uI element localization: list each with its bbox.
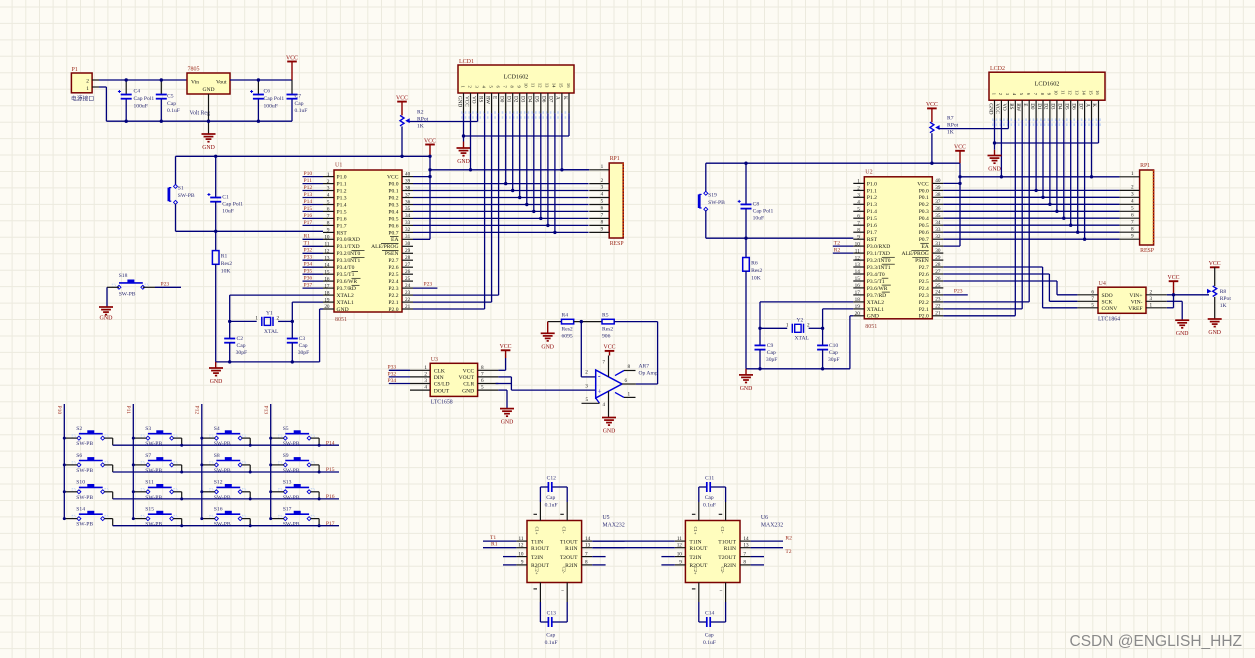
svg-text:P3.6/WR: P3.6/WR: [337, 279, 358, 285]
svg-text:SW-PB: SW-PB: [708, 200, 725, 206]
svg-text:C2+: C2+: [693, 567, 698, 575]
svg-text:LTC1864: LTC1864: [1098, 317, 1120, 323]
svg-text:39: 39: [935, 185, 941, 191]
svg-text:12: 12: [1068, 90, 1073, 95]
svg-text:5: 5: [1131, 206, 1134, 212]
svg-text:C10: C10: [829, 343, 839, 349]
svg-text:T1IN: T1IN: [531, 539, 543, 545]
svg-text:XTAL1: XTAL1: [867, 307, 884, 313]
svg-text:EA: EA: [391, 237, 398, 243]
svg-text:C2: C2: [237, 336, 244, 342]
svg-text:GND: GND: [988, 167, 1001, 173]
svg-text:9: 9: [857, 234, 860, 240]
svg-text:P3.4/T0: P3.4/T0: [867, 272, 885, 278]
svg-text:Cap: Cap: [167, 101, 176, 107]
svg-text:13: 13: [1075, 90, 1080, 95]
svg-text:7805: 7805: [188, 67, 200, 73]
svg-text:0.1uF: 0.1uF: [167, 108, 180, 114]
svg-text:P2.5: P2.5: [919, 279, 929, 285]
svg-text:P1.7: P1.7: [867, 230, 877, 236]
svg-text:11: 11: [519, 536, 524, 542]
svg-text:10: 10: [524, 83, 529, 88]
svg-text:P12: P12: [194, 406, 200, 415]
svg-text:4: 4: [1131, 199, 1134, 205]
svg-text:AR7: AR7: [639, 363, 650, 369]
svg-text:2: 2: [1131, 185, 1134, 191]
svg-text:P10: P10: [56, 406, 62, 415]
svg-text:SW-PB: SW-PB: [214, 441, 231, 447]
svg-text:3: 3: [327, 186, 330, 192]
svg-text:5: 5: [586, 397, 589, 403]
svg-text:6: 6: [625, 378, 628, 384]
svg-text:9: 9: [601, 227, 604, 233]
svg-text:3: 3: [1150, 296, 1153, 302]
svg-text:Y1: Y1: [266, 311, 273, 317]
svg-text:7: 7: [1131, 219, 1134, 225]
svg-text:17: 17: [855, 290, 861, 296]
svg-text:D7: D7: [1077, 103, 1083, 110]
svg-text:R7: R7: [947, 116, 954, 122]
svg-text:1K: 1K: [1220, 303, 1227, 309]
svg-text:4: 4: [327, 193, 330, 199]
svg-text:P0.6: P0.6: [919, 230, 929, 236]
svg-text:12: 12: [538, 83, 543, 88]
svg-text:21: 21: [405, 304, 411, 310]
svg-text:16: 16: [566, 83, 571, 88]
svg-text:P2.7: P2.7: [919, 265, 929, 271]
svg-text:P0.2: P0.2: [388, 195, 398, 201]
svg-text:DOUT: DOUT: [434, 388, 450, 394]
svg-text:1: 1: [327, 172, 330, 178]
svg-text:VO: VO: [470, 96, 476, 104]
svg-text:LCD1602: LCD1602: [1035, 81, 1060, 88]
svg-text:C14: C14: [705, 611, 715, 617]
svg-text:5: 5: [1091, 302, 1094, 308]
svg-text:10uF: 10uF: [222, 209, 234, 215]
svg-text:4: 4: [424, 385, 427, 391]
svg-text:GND: GND: [740, 386, 753, 392]
svg-text:SW-PB: SW-PB: [214, 522, 231, 528]
svg-text:~: ~: [561, 589, 564, 594]
svg-text:C5: C5: [167, 94, 174, 100]
svg-text:RESP: RESP: [610, 241, 624, 247]
svg-text:XTAL2: XTAL2: [337, 293, 354, 299]
svg-text:P3.0/RXD: P3.0/RXD: [337, 237, 360, 243]
svg-text:P15: P15: [326, 467, 335, 473]
svg-text:3: 3: [1131, 192, 1134, 198]
svg-text:GND: GND: [867, 314, 879, 320]
svg-text:XTAL1: XTAL1: [337, 300, 354, 306]
svg-text:28: 28: [405, 255, 411, 261]
svg-text:10K: 10K: [221, 269, 231, 275]
svg-text:8: 8: [601, 220, 604, 226]
svg-text:T2: T2: [785, 549, 791, 555]
svg-text:P1.0: P1.0: [337, 175, 347, 181]
svg-text:7: 7: [327, 214, 330, 220]
svg-text:P1.2: P1.2: [867, 195, 877, 201]
svg-text:Op Amp: Op Amp: [639, 371, 658, 377]
svg-text:P1.1: P1.1: [337, 182, 347, 188]
svg-text:12: 12: [518, 542, 524, 548]
svg-text:P3.7/RD: P3.7/RD: [337, 286, 356, 292]
svg-text:30pF: 30pF: [298, 350, 310, 356]
svg-text:P34: P34: [388, 378, 397, 384]
svg-text:VCC: VCC: [387, 175, 399, 181]
svg-text:P12: P12: [304, 185, 313, 191]
svg-text:XTAL: XTAL: [264, 329, 279, 335]
svg-text:23: 23: [405, 290, 411, 296]
svg-text:24: 24: [405, 283, 411, 289]
svg-text:P11: P11: [125, 406, 131, 415]
svg-text:P0.7: P0.7: [388, 230, 398, 236]
svg-text:SDO: SDO: [1102, 293, 1113, 299]
svg-text:26: 26: [935, 276, 941, 282]
svg-text:SW-PB: SW-PB: [145, 441, 162, 447]
svg-text:VCC: VCC: [500, 344, 512, 350]
svg-text:RPot: RPot: [1220, 296, 1232, 302]
svg-text:P2.2: P2.2: [919, 300, 929, 306]
svg-text:1: 1: [857, 179, 860, 185]
svg-text:30pF: 30pF: [236, 350, 248, 356]
svg-text:40: 40: [935, 178, 941, 184]
svg-text:R4: R4: [562, 312, 569, 318]
svg-text:R2: R2: [417, 110, 424, 116]
svg-text:4: 4: [601, 192, 604, 198]
svg-text:D3: D3: [1050, 103, 1056, 110]
svg-text:P32: P32: [304, 248, 313, 254]
svg-text:P0.1: P0.1: [388, 188, 398, 194]
svg-text:14: 14: [743, 536, 749, 542]
svg-text:P16: P16: [304, 213, 313, 219]
svg-text:P36: P36: [304, 276, 313, 282]
svg-text:C7: C7: [295, 94, 302, 100]
svg-text:P35: P35: [304, 269, 313, 275]
svg-text:8: 8: [743, 560, 746, 566]
svg-text:1K: 1K: [417, 124, 424, 130]
svg-text:LCD1: LCD1: [459, 59, 474, 65]
svg-text:Cap: Cap: [829, 350, 838, 356]
svg-text:2: 2: [601, 178, 604, 184]
svg-text:GND: GND: [1208, 330, 1221, 336]
svg-text:SW-PB: SW-PB: [76, 522, 93, 528]
svg-text:38: 38: [935, 192, 941, 198]
svg-text:30pF: 30pF: [828, 357, 840, 363]
svg-text:2: 2: [857, 186, 860, 192]
svg-text:2: 2: [585, 370, 588, 376]
svg-text:T2: T2: [834, 241, 840, 247]
svg-text:22: 22: [935, 304, 941, 310]
svg-text:11: 11: [677, 536, 682, 542]
svg-text:LTC1658: LTC1658: [431, 400, 453, 406]
svg-text:SW-PB: SW-PB: [76, 495, 93, 501]
svg-text:K: K: [562, 96, 568, 100]
svg-text:7: 7: [585, 551, 588, 557]
svg-text:16: 16: [1095, 90, 1100, 95]
svg-text:10: 10: [1054, 90, 1059, 95]
svg-text:S3: S3: [145, 426, 151, 432]
svg-text:31: 31: [405, 234, 411, 240]
svg-text:P2.4: P2.4: [919, 286, 929, 292]
svg-text:8: 8: [327, 221, 330, 227]
svg-text:S18: S18: [119, 273, 128, 279]
svg-text:7: 7: [601, 213, 604, 219]
svg-text:0.1uF: 0.1uF: [295, 108, 308, 114]
svg-text:6: 6: [1131, 212, 1134, 218]
svg-text:RW: RW: [1015, 103, 1021, 111]
svg-text:20: 20: [855, 311, 861, 317]
svg-text:P3.7/RD: P3.7/RD: [867, 293, 886, 299]
svg-text:Cap Pol1: Cap Pol1: [134, 96, 155, 102]
svg-text:S11: S11: [145, 480, 154, 486]
svg-text:4: 4: [857, 200, 860, 206]
svg-text:S15: S15: [145, 507, 154, 513]
svg-text:SW-PB: SW-PB: [283, 495, 300, 501]
svg-text:16: 16: [855, 283, 861, 289]
svg-text:S8: S8: [214, 453, 220, 459]
svg-text:P16: P16: [326, 494, 335, 500]
svg-text:S7: S7: [145, 453, 151, 459]
svg-text:P2.1: P2.1: [919, 307, 929, 313]
svg-text:25: 25: [935, 283, 941, 289]
svg-text:8051: 8051: [335, 317, 347, 323]
svg-text:100uF: 100uF: [264, 104, 278, 110]
svg-text:13: 13: [324, 255, 330, 261]
svg-text:Volt Reg: Volt Reg: [190, 111, 210, 117]
svg-text:S2: S2: [76, 426, 82, 432]
svg-text:GND: GND: [603, 429, 616, 435]
svg-text:GND: GND: [100, 316, 114, 322]
svg-text:T2IN: T2IN: [531, 555, 543, 561]
svg-text:6: 6: [857, 213, 860, 219]
svg-text:R1IN: R1IN: [724, 546, 736, 552]
svg-text:P3.1/TXD: P3.1/TXD: [337, 244, 360, 250]
svg-text:~: ~: [720, 589, 723, 594]
svg-text:Res2: Res2: [602, 327, 613, 333]
svg-text:P11: P11: [304, 178, 313, 184]
svg-text:9: 9: [679, 560, 682, 566]
svg-text:XTAL2: XTAL2: [867, 300, 884, 306]
svg-text:GND: GND: [541, 344, 554, 350]
svg-text:SW-PB: SW-PB: [145, 522, 162, 528]
svg-text:RPot: RPot: [947, 123, 959, 129]
svg-text:16: 16: [324, 276, 330, 282]
svg-text:2: 2: [277, 316, 280, 322]
svg-text:VCC: VCC: [604, 345, 616, 351]
svg-text:15: 15: [559, 83, 564, 88]
svg-text:T2IN: T2IN: [689, 555, 701, 561]
svg-text:P34: P34: [304, 262, 313, 268]
svg-text:E: E: [491, 96, 497, 99]
svg-text:P2.1: P2.1: [388, 300, 398, 306]
svg-text:3: 3: [424, 378, 427, 384]
svg-text:P0.7: P0.7: [919, 237, 929, 243]
svg-text:P0.6: P0.6: [388, 223, 398, 229]
svg-text:C11: C11: [705, 476, 714, 482]
svg-text:Cap: Cap: [705, 495, 714, 501]
svg-text:S4: S4: [214, 426, 220, 432]
svg-text:SW-PB: SW-PB: [145, 495, 162, 501]
svg-text:0.1uF: 0.1uF: [703, 640, 716, 646]
svg-text:P2.7: P2.7: [388, 258, 398, 264]
svg-text:R8: R8: [1220, 289, 1227, 295]
svg-text:P1.3: P1.3: [337, 195, 347, 201]
svg-text:GND: GND: [337, 307, 349, 313]
svg-text:MAX232: MAX232: [761, 523, 783, 529]
svg-text:RP1: RP1: [610, 156, 620, 162]
svg-text:6: 6: [327, 207, 330, 213]
svg-text:+: +: [598, 388, 602, 395]
svg-text:R1: R1: [221, 254, 228, 260]
svg-text:C4: C4: [134, 89, 141, 95]
svg-text:9: 9: [327, 228, 330, 234]
svg-text:Vout: Vout: [216, 80, 227, 86]
svg-text:10: 10: [855, 241, 861, 247]
svg-text:D1: D1: [506, 96, 512, 103]
svg-text:D7: D7: [548, 96, 554, 103]
svg-text:P2.0: P2.0: [388, 307, 398, 313]
svg-text:P15: P15: [304, 206, 313, 212]
svg-text:P2.3: P2.3: [919, 293, 929, 299]
svg-text:1: 1: [255, 316, 258, 322]
svg-text:T1OUT: T1OUT: [560, 539, 578, 545]
svg-text:1: 1: [1131, 171, 1134, 177]
svg-text:8: 8: [628, 364, 631, 370]
svg-text:GND: GND: [202, 87, 214, 93]
svg-text:19: 19: [324, 297, 330, 303]
svg-text:2: 2: [327, 179, 330, 185]
svg-text:10: 10: [677, 551, 683, 557]
svg-text:Cap Pol1: Cap Pol1: [222, 202, 243, 208]
svg-text:P3.4/T0: P3.4/T0: [337, 265, 355, 271]
svg-text:C8: C8: [753, 201, 760, 207]
svg-text:7: 7: [1091, 296, 1094, 302]
svg-text:VCC: VCC: [926, 102, 938, 108]
svg-text:35: 35: [405, 206, 411, 212]
svg-text:15: 15: [855, 276, 861, 282]
svg-text:CONV: CONV: [1102, 306, 1118, 312]
svg-text:P2.5: P2.5: [388, 272, 398, 278]
svg-text:C2-: C2-: [561, 567, 566, 574]
svg-text:15: 15: [324, 269, 330, 275]
svg-text:D6: D6: [1071, 103, 1077, 110]
svg-text:GND: GND: [202, 145, 215, 151]
svg-text:1: 1: [786, 322, 789, 328]
svg-text:P23: P23: [954, 288, 963, 294]
svg-text:18: 18: [855, 297, 861, 303]
svg-text:R6: R6: [751, 260, 758, 266]
svg-text:10K: 10K: [751, 275, 761, 281]
svg-text:6095: 6095: [562, 334, 573, 340]
svg-text:U6: U6: [761, 515, 768, 521]
svg-text:20: 20: [324, 304, 330, 310]
svg-text:SCK: SCK: [1102, 300, 1113, 306]
svg-text:34: 34: [935, 220, 941, 226]
svg-text:D4: D4: [527, 96, 533, 103]
svg-text:P10: P10: [304, 171, 313, 177]
svg-text:27: 27: [405, 262, 411, 268]
svg-text:P17: P17: [326, 521, 335, 527]
svg-text:Cap: Cap: [237, 343, 246, 349]
svg-text:P2.6: P2.6: [388, 265, 398, 271]
svg-text:12: 12: [855, 255, 861, 261]
svg-text:P2.6: P2.6: [919, 272, 929, 278]
svg-text:VCC: VCC: [463, 369, 475, 375]
svg-text:GND: GND: [987, 103, 993, 114]
svg-text:26: 26: [405, 269, 411, 275]
svg-text:27: 27: [935, 269, 941, 275]
svg-text:14: 14: [552, 83, 557, 88]
svg-text:P1.0: P1.0: [867, 181, 877, 187]
svg-text:Cap: Cap: [705, 633, 714, 639]
svg-text:RS: RS: [1008, 103, 1014, 109]
svg-text:RST: RST: [867, 237, 878, 243]
svg-text:A: A: [1084, 103, 1090, 107]
svg-text:32: 32: [935, 234, 941, 240]
svg-text:D5: D5: [1064, 103, 1070, 110]
svg-text:39: 39: [405, 178, 411, 184]
svg-text:D0: D0: [499, 96, 505, 103]
svg-text:7: 7: [857, 220, 860, 226]
svg-text:S13: S13: [283, 480, 292, 486]
svg-text:37: 37: [935, 199, 941, 205]
svg-text:S6: S6: [76, 453, 82, 459]
svg-text:S19: S19: [708, 192, 717, 198]
svg-text:P13: P13: [304, 192, 313, 198]
svg-text:Cap: Cap: [546, 495, 555, 501]
svg-text:VOUT: VOUT: [459, 375, 475, 381]
svg-text:P0.0: P0.0: [388, 182, 398, 188]
svg-text:30: 30: [935, 248, 941, 254]
svg-text:29: 29: [405, 248, 411, 254]
svg-text:电源接口: 电源接口: [71, 95, 94, 103]
svg-text:P0.1: P0.1: [919, 195, 929, 201]
svg-text:R2: R2: [834, 248, 841, 254]
svg-text:PSEN: PSEN: [385, 251, 399, 257]
svg-text:2: 2: [424, 371, 427, 377]
svg-text:S5: S5: [283, 426, 289, 432]
svg-text:32: 32: [405, 227, 411, 233]
svg-text:8: 8: [857, 227, 860, 233]
svg-text:P0.3: P0.3: [919, 209, 929, 215]
svg-text:C6: C6: [264, 89, 271, 95]
svg-text:P37: P37: [304, 283, 313, 289]
svg-text:5: 5: [601, 199, 604, 205]
svg-text:ALE/PROG: ALE/PROG: [371, 244, 398, 250]
svg-text:VCC: VCC: [463, 96, 469, 107]
svg-text:PSEN: PSEN: [915, 258, 929, 264]
svg-text:CLK: CLK: [434, 369, 445, 375]
svg-text:P3.1/TXD: P3.1/TXD: [867, 251, 890, 257]
svg-text:P2.0: P2.0: [919, 314, 929, 320]
svg-text:25: 25: [405, 276, 411, 282]
svg-text:U5: U5: [603, 515, 610, 521]
svg-text:P0.3: P0.3: [388, 202, 398, 208]
svg-text:SW-PB: SW-PB: [214, 495, 231, 501]
svg-text:P3.6/WR: P3.6/WR: [867, 286, 888, 292]
svg-text:S16: S16: [214, 507, 223, 513]
svg-text:37: 37: [405, 192, 411, 198]
svg-text:11: 11: [855, 248, 860, 254]
svg-text:Y2: Y2: [797, 317, 804, 323]
svg-text:Cap Pol1: Cap Pol1: [753, 208, 774, 214]
svg-text:R5: R5: [602, 312, 609, 318]
svg-text:13: 13: [743, 542, 749, 548]
svg-text:P1.4: P1.4: [867, 209, 877, 215]
svg-text:0.1uF: 0.1uF: [703, 502, 716, 508]
svg-text:VCC: VCC: [1168, 275, 1180, 281]
svg-text:SW-PB: SW-PB: [283, 441, 300, 447]
svg-text:GND: GND: [462, 388, 474, 394]
